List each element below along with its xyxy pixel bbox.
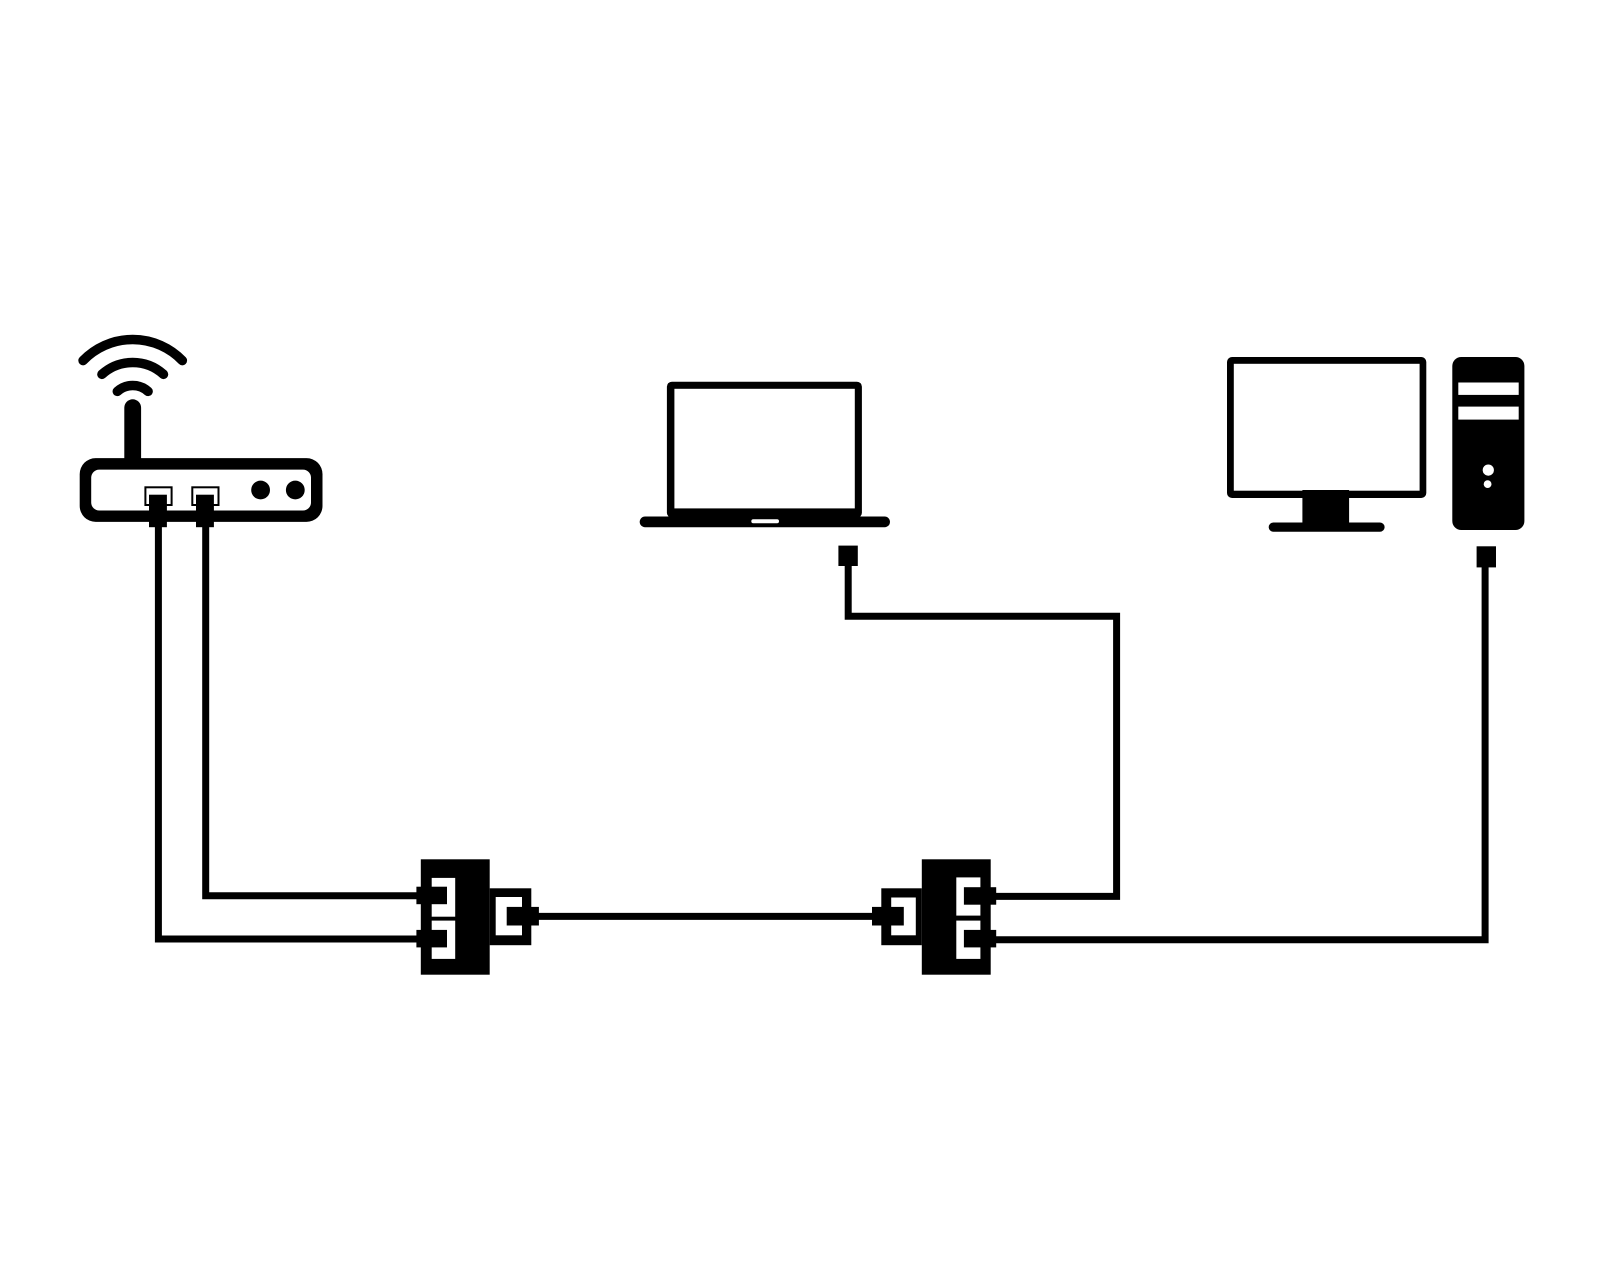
laptop screen face xyxy=(674,389,854,509)
tower case xyxy=(1452,357,1524,530)
splitter 1 body xyxy=(421,859,490,974)
router body outline xyxy=(80,458,323,522)
router body face xyxy=(91,470,311,511)
splitter 2 left jack xyxy=(891,898,916,936)
splitter 2 left protrusion xyxy=(881,888,922,945)
splitter 1 upper left plug xyxy=(416,887,447,905)
router port 1 jack xyxy=(145,487,171,505)
splitter 2 left plug xyxy=(872,907,904,926)
splitter 2 upper right plug xyxy=(964,887,996,905)
wire splitter1 to splitter2 xyxy=(536,913,874,920)
laptop cable plug xyxy=(838,546,857,566)
splitter 1 right plug xyxy=(507,907,539,926)
splitter 1 right jack xyxy=(496,897,522,935)
splitter 1 lower left jack xyxy=(432,921,456,959)
splitter 1 lower left plug xyxy=(416,930,447,948)
tower button large xyxy=(1483,465,1494,476)
laptop base xyxy=(640,517,890,528)
wifi wave inner arc xyxy=(117,386,148,392)
tower drive slot 1 xyxy=(1458,383,1518,395)
monitor stand neck xyxy=(1302,490,1349,523)
router LED 1 xyxy=(251,481,270,500)
splitter 2 lower right plug xyxy=(964,930,996,948)
monitor outline xyxy=(1227,357,1426,498)
wire router port2 to splitter1 upper jack xyxy=(206,524,418,896)
tower cable plug xyxy=(1477,546,1496,567)
splitter 2 lower right jack xyxy=(956,921,980,959)
splitter 2 upper right jack xyxy=(956,877,980,915)
splitter 1 upper left jack xyxy=(432,878,456,917)
laptop base notch xyxy=(751,519,779,523)
router port 2 jack xyxy=(192,487,218,505)
wifi wave outer arc xyxy=(83,340,182,361)
wire router port1 to splitter1 lower jack xyxy=(158,524,418,939)
wire tower to splitter2 lower jack xyxy=(994,564,1485,940)
router antenna xyxy=(124,399,141,469)
wire laptop to splitter2 upper jack xyxy=(848,564,1116,896)
splitter 2 body xyxy=(922,859,991,974)
splitter 1 right protrusion xyxy=(490,888,532,945)
laptop screen outline xyxy=(667,382,862,518)
tower button small xyxy=(1484,480,1492,488)
tower drive slot 2 xyxy=(1458,407,1518,420)
wifi wave middle arc xyxy=(102,363,164,375)
router LED 2 xyxy=(286,481,305,500)
monitor stand base xyxy=(1269,523,1385,532)
router port 1 plug xyxy=(149,495,167,528)
monitor face xyxy=(1234,364,1420,491)
router port 2 plug xyxy=(196,495,214,528)
